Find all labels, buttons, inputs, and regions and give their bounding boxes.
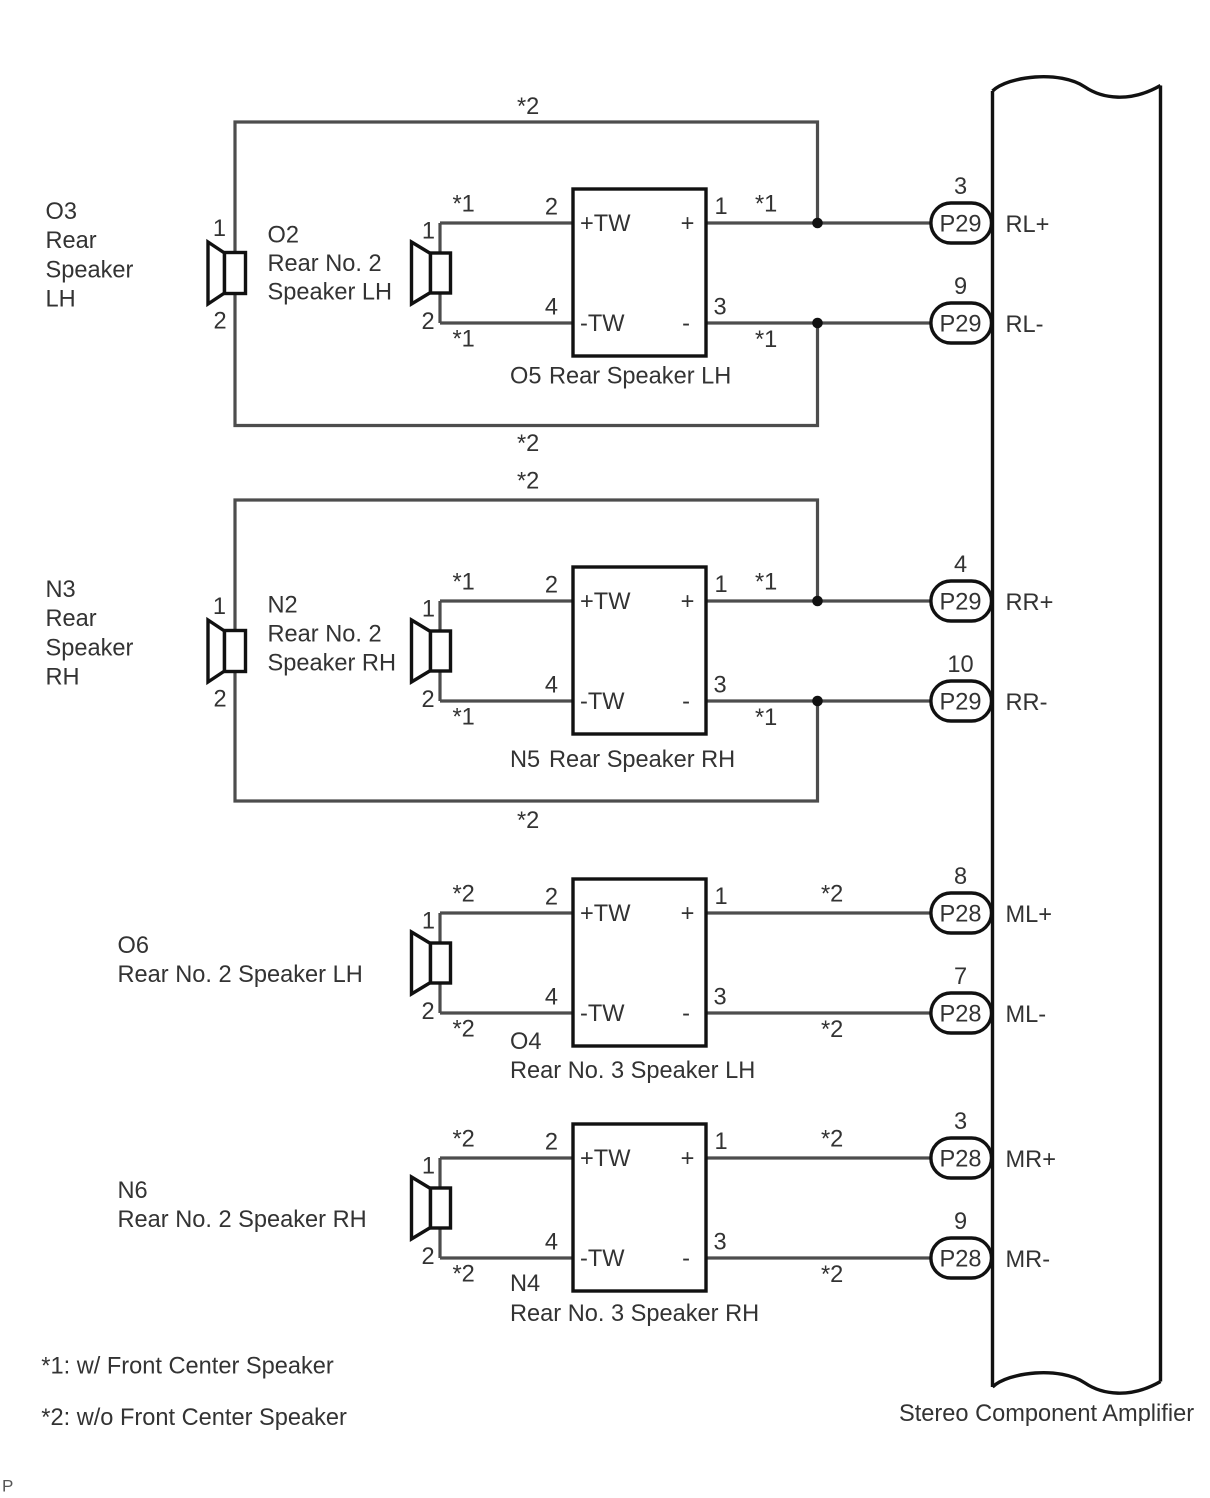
tweeter crossover box S4-MR — [573, 1124, 706, 1291]
wire S2-RR terminal-1 stub — [438, 601, 441, 632]
speaker N3 Rear Speaker RH — [208, 620, 225, 682]
svg-text:*1: w/ Front Center Speaker: *1: w/ Front Center Speaker — [41, 1354, 334, 1380]
speaker S3-ML mid — [412, 932, 431, 994]
svg-text:*1: *1 — [755, 570, 777, 596]
svg-text:MR+: MR+ — [1006, 1147, 1056, 1173]
svg-text:P29: P29 — [940, 211, 982, 237]
svg-text:9: 9 — [954, 1209, 967, 1235]
svg-text:Rear Speaker RH: Rear Speaker RH — [549, 747, 735, 773]
wire S1-RL - box-to-connector — [706, 321, 931, 324]
svg-text:2: 2 — [214, 687, 227, 713]
svg-text:4: 4 — [954, 552, 967, 578]
svg-text:O3: O3 — [46, 199, 77, 225]
svg-text:Rear: Rear — [46, 228, 97, 254]
svg-text:-TW: -TW — [580, 689, 625, 715]
svg-text:*2: *2 — [821, 882, 843, 908]
connector P29 pin 4 (RR+) — [931, 581, 992, 621]
svg-text:3: 3 — [954, 174, 967, 200]
svg-text:3: 3 — [714, 985, 727, 1011]
svg-text:+TW: +TW — [580, 211, 631, 237]
connector P28 pin 8 (ML+) — [931, 893, 992, 933]
wire S1-RL crossover loop (*2 routing) — [235, 122, 818, 426]
svg-text:P28: P28 — [940, 1246, 982, 1272]
connector P29 pin 3 (RL+) — [931, 203, 992, 243]
junction S2-RR + — [812, 596, 823, 607]
wire S4-MR - box-to-connector — [706, 1256, 931, 1259]
wire S3-ML terminal-1 stub — [438, 913, 441, 944]
svg-text:Rear No. 2 Speaker LH: Rear No. 2 Speaker LH — [118, 962, 363, 988]
svg-text:+: + — [681, 1146, 695, 1172]
svg-text:Rear No. 2 Speaker RH: Rear No. 2 Speaker RH — [118, 1207, 367, 1233]
svg-text:3: 3 — [714, 673, 727, 699]
wire S2-RR + speaker-to-box — [440, 599, 573, 602]
svg-text:P28: P28 — [940, 1001, 982, 1027]
svg-text:P28: P28 — [940, 1146, 982, 1172]
svg-text:2: 2 — [422, 309, 435, 335]
svg-text:Speaker: Speaker — [46, 635, 134, 661]
svg-text:*1: *1 — [453, 192, 475, 218]
svg-text:P29: P29 — [940, 689, 982, 715]
wire S4-MR + speaker-to-box — [440, 1156, 573, 1159]
svg-text:+: + — [681, 901, 695, 927]
tweeter crossover box S3-ML — [573, 879, 706, 1046]
svg-text:1: 1 — [715, 1129, 728, 1155]
svg-text:+TW: +TW — [580, 1146, 631, 1172]
svg-text:*2: *2 — [453, 1127, 475, 1153]
svg-text:3: 3 — [954, 1109, 967, 1135]
connector P28 pin 9 (MR-) — [931, 1238, 992, 1278]
svg-text:*2: *2 — [821, 1127, 843, 1153]
svg-text:*2: *2 — [517, 431, 539, 457]
wire S1-RL terminal-2 stub — [438, 292, 441, 323]
svg-text:RL+: RL+ — [1006, 212, 1050, 238]
wire S3-ML - box-to-connector — [706, 1011, 931, 1014]
svg-text:O4: O4 — [510, 1029, 541, 1055]
svg-text:-TW: -TW — [580, 1246, 625, 1272]
svg-text:Speaker LH: Speaker LH — [268, 279, 393, 305]
svg-text:+TW: +TW — [580, 901, 631, 927]
svg-text:*1: *1 — [453, 705, 475, 731]
svg-text:10: 10 — [947, 652, 973, 678]
svg-text:N3: N3 — [46, 577, 76, 603]
svg-text:*1: *1 — [453, 570, 475, 596]
svg-text:N5: N5 — [510, 747, 540, 773]
wire S2-RR crossover loop (*2 routing) — [235, 500, 818, 801]
wire S3-ML + speaker-to-box — [440, 911, 573, 914]
wire S1-RL + box-to-connector — [706, 221, 931, 224]
svg-text:*1: *1 — [453, 327, 475, 353]
svg-text:2: 2 — [214, 309, 227, 335]
svg-text:*2: *2 — [821, 1262, 843, 1288]
wire S3-ML + box-to-connector — [706, 911, 931, 914]
svg-text:2: 2 — [545, 573, 558, 599]
svg-text:P: P — [2, 1477, 13, 1496]
svg-text:1: 1 — [422, 597, 435, 623]
svg-text:*1: *1 — [755, 705, 777, 731]
svg-text:Speaker: Speaker — [46, 257, 134, 283]
speaker S4-MR mid — [412, 1177, 431, 1239]
svg-text:RL-: RL- — [1006, 312, 1044, 338]
svg-text:-: - — [682, 311, 690, 337]
wire S2-RR terminal-2 stub — [438, 670, 441, 701]
junction S1-RL + — [812, 218, 823, 229]
svg-text:1: 1 — [715, 884, 728, 910]
tweeter crossover box S2-RR — [573, 567, 706, 734]
svg-text:4: 4 — [545, 985, 558, 1011]
connector P29 pin 10 (RR-) — [931, 681, 992, 721]
svg-text:1: 1 — [715, 194, 728, 220]
svg-text:2: 2 — [422, 1244, 435, 1270]
svg-text:*1: *1 — [755, 327, 777, 353]
svg-text:MR-: MR- — [1006, 1247, 1051, 1273]
wire S3-ML - speaker-to-box — [440, 1011, 573, 1014]
stereo component amplifier band — [993, 77, 1161, 97]
svg-text:2: 2 — [422, 999, 435, 1025]
svg-text:4: 4 — [545, 1230, 558, 1256]
svg-text:1: 1 — [422, 909, 435, 935]
svg-text:4: 4 — [545, 673, 558, 699]
junction S1-RL - — [812, 318, 823, 329]
wire S4-MR terminal-2 stub — [438, 1227, 441, 1258]
svg-text:Speaker RH: Speaker RH — [268, 651, 397, 677]
svg-text:RR-: RR- — [1006, 690, 1048, 716]
svg-text:1: 1 — [213, 594, 226, 620]
svg-text:9: 9 — [954, 274, 967, 300]
svg-text:+TW: +TW — [580, 589, 631, 615]
svg-text:N6: N6 — [118, 1178, 148, 1204]
svg-text:Rear No. 3 Speaker RH: Rear No. 3 Speaker RH — [510, 1301, 759, 1327]
svg-text:O5: O5 — [510, 364, 541, 390]
wire S4-MR - speaker-to-box — [440, 1256, 573, 1259]
svg-text:*2: *2 — [453, 1017, 475, 1043]
svg-text:RR+: RR+ — [1006, 590, 1054, 616]
svg-text:P28: P28 — [940, 901, 982, 927]
svg-text:-TW: -TW — [580, 1001, 625, 1027]
svg-text:P29: P29 — [940, 589, 982, 615]
svg-text:-: - — [682, 1001, 690, 1027]
svg-text:ML+: ML+ — [1006, 902, 1053, 928]
svg-text:*2: *2 — [517, 469, 539, 495]
svg-text:-: - — [682, 689, 690, 715]
wire S1-RL + speaker-to-box — [440, 221, 573, 224]
svg-text:+: + — [681, 589, 695, 615]
svg-text:2: 2 — [545, 885, 558, 911]
svg-text:3: 3 — [714, 295, 727, 321]
connector P29 pin 9 (RL-) — [931, 303, 992, 343]
svg-text:8: 8 — [954, 864, 967, 890]
svg-text:*2: *2 — [453, 882, 475, 908]
speaker S2-RR mid — [412, 620, 431, 682]
svg-text:Rear No. 3 Speaker LH: Rear No. 3 Speaker LH — [510, 1058, 755, 1084]
svg-text:Rear Speaker LH: Rear Speaker LH — [549, 364, 731, 390]
wire S1-RL - speaker-to-box — [440, 321, 573, 324]
svg-text:N2: N2 — [268, 593, 298, 619]
svg-text:1: 1 — [422, 219, 435, 245]
svg-text:Rear No. 2: Rear No. 2 — [268, 251, 382, 277]
svg-text:Rear: Rear — [46, 606, 97, 632]
svg-text:Rear No. 2: Rear No. 2 — [268, 622, 382, 648]
svg-text:-: - — [682, 1246, 690, 1272]
svg-text:2: 2 — [545, 1130, 558, 1156]
svg-text:ML-: ML- — [1006, 1002, 1047, 1028]
svg-text:1: 1 — [213, 216, 226, 242]
svg-text:Stereo Component Amplifier: Stereo Component Amplifier — [899, 1401, 1194, 1427]
svg-text:N4: N4 — [510, 1271, 540, 1297]
connector P28 pin 3 (MR+) — [931, 1138, 992, 1178]
connector P28 pin 7 (ML-) — [931, 993, 992, 1033]
svg-text:-TW: -TW — [580, 311, 625, 337]
junction S2-RR - — [812, 696, 823, 707]
svg-text:2: 2 — [545, 195, 558, 221]
speaker S1-RL mid — [412, 242, 431, 304]
wire S3-ML terminal-2 stub — [438, 982, 441, 1013]
svg-text:7: 7 — [954, 964, 967, 990]
svg-text:P29: P29 — [940, 311, 982, 337]
wire S1-RL terminal-1 stub — [438, 223, 441, 254]
svg-text:*2: *2 — [517, 808, 539, 834]
wire S2-RR - box-to-connector — [706, 699, 931, 702]
wire S4-MR + box-to-connector — [706, 1156, 931, 1159]
wire S4-MR terminal-1 stub — [438, 1158, 441, 1189]
svg-text:4: 4 — [545, 295, 558, 321]
svg-text:*2: *2 — [821, 1017, 843, 1043]
wire S2-RR - speaker-to-box — [440, 699, 573, 702]
svg-text:2: 2 — [422, 687, 435, 713]
svg-text:*2: *2 — [517, 94, 539, 120]
svg-text:1: 1 — [715, 572, 728, 598]
svg-text:O6: O6 — [118, 933, 149, 959]
svg-text:*2: *2 — [453, 1262, 475, 1288]
svg-text:LH: LH — [46, 286, 76, 312]
svg-text:*2: w/o Front Center Speaker: *2: w/o Front Center Speaker — [41, 1405, 347, 1431]
svg-text:*1: *1 — [755, 192, 777, 218]
speaker O3 Rear Speaker LH — [208, 242, 225, 304]
tweeter crossover box S1-RL — [573, 189, 706, 356]
svg-text:1: 1 — [422, 1154, 435, 1180]
svg-text:RH: RH — [46, 664, 80, 690]
svg-text:O2: O2 — [268, 223, 299, 249]
svg-text:3: 3 — [714, 1230, 727, 1256]
svg-text:+: + — [681, 211, 695, 237]
wire S2-RR + box-to-connector — [706, 599, 931, 602]
